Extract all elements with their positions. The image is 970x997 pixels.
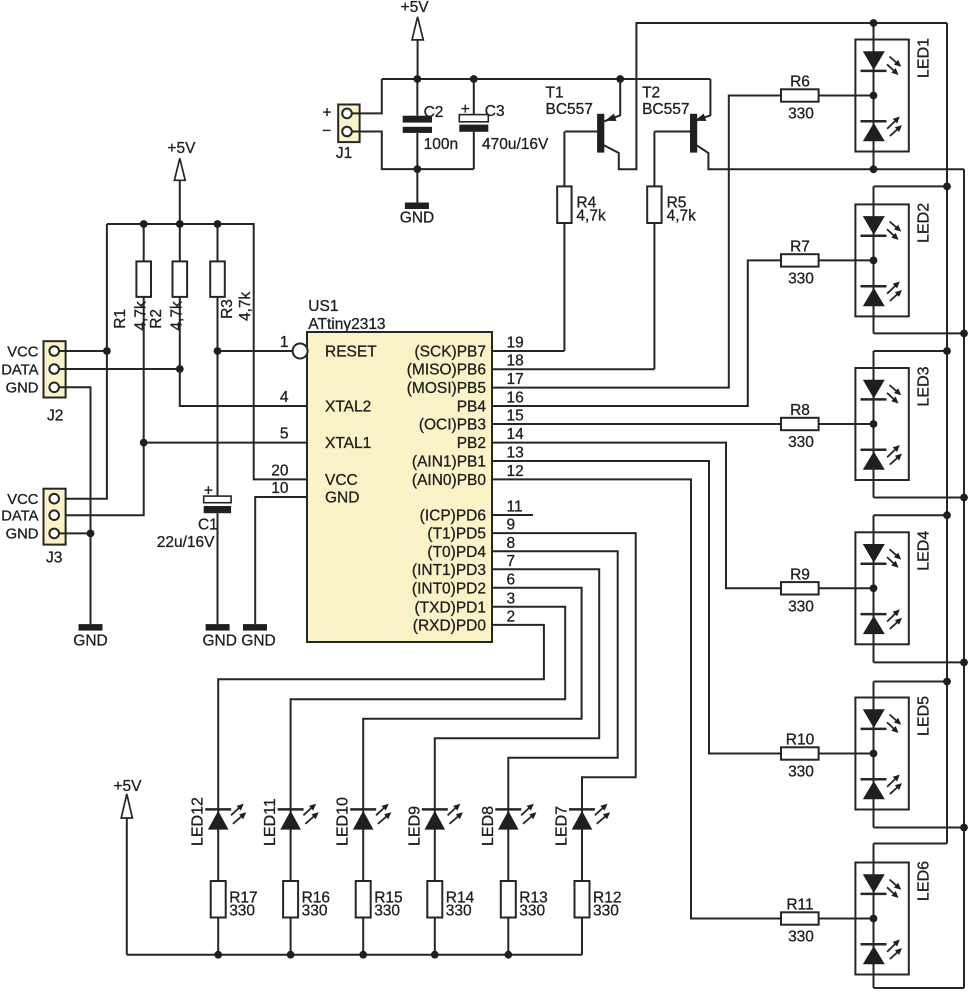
svg-text:17: 17: [507, 371, 524, 388]
svg-text:R10: R10: [786, 732, 815, 749]
junction cathode rail LED3: [960, 494, 968, 502]
svg-text:VCC: VCC: [325, 472, 358, 489]
junction J2 DATA / R2: [176, 365, 184, 373]
resistor R16: [283, 881, 298, 918]
wire J1 minus to ground rail: [352, 132, 474, 170]
LED6 upper diode arrows: [890, 880, 900, 889]
svg-text:R7: R7: [790, 238, 810, 255]
svg-text:4,7k: 4,7k: [237, 291, 254, 321]
svg-text:GND: GND: [6, 381, 39, 397]
svg-text:+5V: +5V: [167, 140, 196, 157]
svg-text:GND: GND: [325, 490, 359, 507]
connector J1: [338, 105, 359, 143]
junction LED6 midpoint: [870, 915, 878, 923]
svg-text:GND: GND: [400, 210, 434, 227]
wire pin 17 to R6: [492, 96, 874, 388]
svg-text:LED1: LED1: [916, 38, 933, 78]
pin wire XTAL1 (pin 5): [144, 442, 307, 444]
svg-text:(RXD)PD0: (RXD)PD0: [413, 617, 487, 634]
wire J3 GND: [59, 532, 91, 534]
transistor T1 collector: [604, 23, 947, 169]
svg-text:330: 330: [229, 903, 255, 920]
svg-text:+5V: +5V: [401, 0, 430, 16]
svg-text:(T1)PD5: (T1)PD5: [427, 526, 486, 543]
svg-text:GND: GND: [73, 632, 107, 649]
svg-text:3: 3: [507, 590, 516, 607]
svg-text:100n: 100n: [424, 136, 458, 153]
wire left +5V bus to IC VCC pin 20: [107, 224, 307, 479]
svg-text:1: 1: [280, 334, 289, 351]
junction LED4 midpoint: [870, 584, 878, 592]
LED LED10 arrows: [376, 805, 387, 815]
LED4 upper diode arrows: [890, 549, 900, 558]
svg-text:DATA: DATA: [1, 509, 38, 525]
LED1 lower diode arrows: [887, 118, 898, 129]
LED6 lower diode arrows: [887, 941, 898, 952]
LED2 lower diode: [861, 285, 887, 288]
LED4 upper diode: [863, 544, 885, 563]
connector J2: [44, 341, 66, 397]
svg-text:T2: T2: [642, 85, 660, 102]
junction anode rail LED5: [943, 678, 951, 686]
svg-text:(T0)PD4: (T0)PD4: [427, 544, 486, 561]
LED4 box and wires: [874, 514, 948, 516]
resistor R15: [356, 881, 371, 918]
LED6 box and wires: [874, 843, 948, 845]
svg-text:4,7k: 4,7k: [576, 208, 606, 225]
svg-text:R1: R1: [112, 309, 129, 329]
wire pin 14 to R9: [492, 443, 874, 589]
junction anode rail LED3: [943, 347, 951, 355]
junction cathode rail LED5: [960, 824, 968, 832]
junction bottom rail / LED12 column: [214, 951, 222, 959]
svg-text:10: 10: [271, 480, 289, 497]
svg-text:5: 5: [280, 426, 289, 443]
resistor R3: [217, 224, 219, 496]
ground GND (under C1): [206, 624, 230, 631]
resistor R8: [781, 418, 819, 430]
svg-text:16: 16: [507, 390, 524, 407]
transistor T2 body: [690, 114, 697, 153]
LED LED10 diode: [350, 808, 376, 811]
junction LED1 midpoint: [870, 92, 878, 100]
svg-text:7: 7: [507, 553, 516, 570]
svg-text:C3: C3: [485, 103, 505, 120]
junction bottom rail / LED8 column: [504, 951, 512, 959]
junction cathode rail LED2: [960, 330, 968, 338]
transistor T1 body: [597, 114, 604, 153]
LED1 lower diode: [861, 120, 887, 123]
svg-text:(MOSI)PB5: (MOSI)PB5: [407, 380, 486, 397]
svg-text:4,7k: 4,7k: [169, 301, 186, 331]
svg-text:PB2: PB2: [457, 435, 486, 452]
svg-text:R2: R2: [148, 309, 165, 329]
svg-text:LED6: LED6: [916, 861, 933, 901]
wire pin 16 to R7: [492, 260, 874, 406]
svg-text:330: 330: [788, 764, 814, 781]
svg-text:LED8: LED8: [480, 806, 497, 846]
LED LED8 arrows: [521, 805, 532, 815]
connector J3: [44, 489, 66, 545]
LED2 lower diode arrows: [887, 283, 898, 294]
capacitor C2: [416, 79, 418, 116]
junction LED1 cathode / T2 collector: [870, 165, 878, 173]
wire J2 VCC: [59, 350, 107, 352]
junction bottom rail / LED11 column: [287, 951, 295, 959]
svg-text:(AIN1)PB1: (AIN1)PB1: [412, 454, 486, 471]
junction +5V bus / T1 emitter: [616, 75, 624, 83]
wire pin 8 to LED8: [492, 551, 618, 954]
wire IC GND pin 10 to ground: [255, 497, 307, 624]
LED1 box and wires: [873, 23, 875, 169]
wire pin 11 stub: [492, 514, 533, 516]
resistor R7: [781, 254, 819, 266]
svg-text:R3: R3: [219, 299, 236, 319]
LED6 upper diode: [863, 874, 885, 893]
junction ground rail / C2: [413, 165, 421, 173]
svg-text:(INT0)PD2: (INT0)PD2: [412, 580, 486, 597]
svg-text:9: 9: [507, 517, 516, 534]
resistor R6: [781, 89, 819, 101]
wire LED cathode rail (x=964): [963, 169, 965, 988]
junction cathode rail LED4: [960, 659, 968, 667]
LED LED12 arrows: [231, 805, 242, 815]
LED3 lower diode: [861, 449, 887, 452]
junction left bus / R1: [140, 220, 148, 228]
svg-text:US1: US1: [308, 298, 338, 315]
svg-text:+: +: [322, 105, 331, 122]
svg-text:XTAL1: XTAL1: [325, 435, 371, 452]
junction LED3 midpoint: [870, 420, 878, 428]
svg-text:14: 14: [507, 426, 525, 443]
svg-text:XTAL2: XTAL2: [325, 399, 371, 416]
svg-text:T1: T1: [546, 85, 564, 102]
wire RESET net (pin 1): [218, 350, 293, 352]
LED LED7 arrows: [595, 805, 606, 815]
svg-text:R8: R8: [790, 402, 810, 419]
svg-text:+5V: +5V: [113, 778, 142, 795]
wire J2 DATA: [59, 368, 180, 370]
svg-text:13: 13: [507, 445, 524, 462]
junction J2 VCC / rail: [103, 347, 111, 355]
svg-text:22u/16V: 22u/16V: [157, 534, 215, 551]
svg-text:(OCI)PB3: (OCI)PB3: [419, 417, 486, 434]
svg-text:C1: C1: [198, 517, 218, 534]
svg-text:(SCK)PB7: (SCK)PB7: [415, 344, 487, 361]
svg-text:11: 11: [507, 499, 523, 516]
wire LED anode rail (x=947): [946, 23, 948, 844]
transistor T1 base wire: [565, 131, 597, 133]
svg-text:LED4: LED4: [916, 531, 933, 571]
LED LED11 diode: [278, 808, 304, 811]
svg-text:R6: R6: [790, 74, 810, 91]
svg-text:330: 330: [374, 903, 400, 920]
LED2 box and wires: [874, 185, 948, 187]
ground GND (under C2): [405, 203, 429, 210]
svg-text:330: 330: [788, 434, 814, 451]
resistor R14: [427, 881, 442, 918]
svg-text:VCC: VCC: [7, 344, 39, 360]
svg-text:LED2: LED2: [916, 203, 933, 243]
svg-text:DATA: DATA: [1, 362, 38, 378]
svg-text:−: −: [322, 123, 331, 140]
junction J3 GND: [87, 530, 95, 538]
svg-text:19: 19: [507, 335, 524, 352]
wire pin 2 to LED12: [218, 625, 544, 955]
resistor R4: [563, 132, 565, 352]
junction bottom rail / LED10 column: [359, 951, 367, 959]
svg-text:330: 330: [519, 903, 545, 920]
svg-text:R9: R9: [790, 566, 810, 583]
resistor R12: [575, 881, 590, 918]
junction bottom rail / LED9 column: [431, 951, 439, 959]
svg-text:LED11: LED11: [262, 798, 279, 846]
LED LED8 diode: [495, 808, 521, 811]
wire pin 9 to LED7: [492, 533, 636, 955]
svg-text:GND: GND: [202, 632, 236, 649]
svg-text:15: 15: [507, 408, 524, 425]
svg-text:12: 12: [507, 463, 524, 480]
svg-text:(ICP)PD6: (ICP)PD6: [420, 508, 486, 525]
wire pin 13 to R10: [492, 461, 874, 754]
svg-text:J2: J2: [47, 408, 63, 425]
wire pin 19 to R4: [492, 350, 564, 352]
resistor R9: [781, 582, 819, 594]
svg-text:330: 330: [302, 903, 328, 920]
transistor T2 base wire: [654, 131, 690, 133]
LED3 upper diode: [863, 380, 885, 399]
wire pin 18 to R5: [492, 368, 654, 370]
svg-text:(INT1)PD3: (INT1)PD3: [412, 562, 486, 579]
junction +5V bus / C2: [413, 75, 421, 83]
wire bottom +5V rail: [127, 954, 582, 956]
svg-text:8: 8: [507, 535, 516, 552]
svg-text:VCC: VCC: [7, 492, 39, 508]
capacitor C1 (electrolytic): [217, 513, 219, 624]
junction +5V bus / C3: [470, 75, 478, 83]
junction LED1 anode / top wire: [870, 19, 878, 27]
capacitor C3 (electrolytic): [473, 79, 475, 115]
svg-text:GND: GND: [241, 632, 275, 649]
svg-text:J1: J1: [336, 145, 352, 162]
LED1 upper diode: [863, 51, 885, 70]
svg-text:LED12: LED12: [190, 797, 207, 846]
svg-text:4: 4: [280, 389, 289, 406]
transistor T1 emitter: [604, 79, 620, 121]
svg-text:ATtiny2313: ATtiny2313: [308, 316, 385, 333]
LED2 upper diode: [863, 216, 885, 235]
resistor R10: [781, 747, 819, 759]
LED LED12 diode: [205, 808, 231, 811]
svg-text:BC557: BC557: [546, 101, 593, 118]
svg-text:LED5: LED5: [916, 696, 933, 736]
wire pin 7 to LED9: [435, 569, 599, 954]
LED5 upper diode: [863, 709, 885, 728]
wire pin 3 to LED11: [291, 607, 566, 955]
LED2 upper diode arrows: [890, 221, 900, 230]
transistor T2 collector: [697, 145, 965, 169]
LED LED7 diode: [569, 808, 595, 811]
resistor R11: [781, 912, 819, 924]
LED3 box and wires: [874, 350, 948, 352]
LED5 box and wires: [874, 681, 948, 683]
ground GND (IC pin 10): [243, 624, 267, 631]
svg-text:GND: GND: [6, 527, 39, 543]
junction left bus / R2 +5V: [176, 220, 184, 228]
junction XTAL1 / R1: [140, 439, 148, 447]
wire +5V bus (top): [382, 78, 711, 80]
junction LED5 midpoint: [870, 750, 878, 758]
svg-text:LED3: LED3: [916, 366, 933, 406]
svg-text:4,7k: 4,7k: [133, 301, 150, 331]
svg-text:330: 330: [788, 106, 814, 123]
wire pin 15 to R8: [492, 423, 874, 425]
svg-text:330: 330: [593, 903, 619, 920]
svg-text:330: 330: [446, 903, 472, 920]
resistor R2: [180, 224, 307, 406]
junction left bus / R3: [214, 220, 222, 228]
LED3 lower diode arrows: [887, 446, 898, 457]
LED1 upper diode arrows: [890, 57, 900, 66]
svg-text:330: 330: [788, 598, 814, 615]
svg-text:(MISO)PB6: (MISO)PB6: [407, 362, 486, 379]
svg-text:(TXD)PD1: (TXD)PD1: [415, 599, 486, 616]
junction LED2 midpoint: [870, 257, 878, 265]
wire J1 plus to bus: [352, 79, 382, 113]
svg-text:4,7k: 4,7k: [667, 208, 697, 225]
LED4 lower diode arrows: [887, 611, 898, 622]
wire J2 GND down: [59, 387, 91, 624]
svg-text:LED7: LED7: [554, 806, 571, 846]
svg-text:R11: R11: [786, 897, 813, 914]
svg-text:J3: J3: [46, 550, 62, 567]
svg-text:20: 20: [271, 462, 289, 479]
transistor T2 emitter: [694, 79, 710, 121]
LED5 lower diode arrows: [887, 776, 898, 787]
svg-text:330: 330: [788, 270, 814, 287]
resistor R5: [653, 132, 655, 370]
svg-text:470u/16V: 470u/16V: [482, 136, 549, 153]
resistor R1: [59, 224, 144, 515]
junction anode rail LED4: [943, 511, 951, 519]
LED5 upper diode arrows: [890, 715, 900, 724]
svg-text:330: 330: [788, 929, 814, 946]
svg-text:LED10: LED10: [335, 797, 352, 846]
junction RESET / R3: [214, 347, 222, 355]
LED LED9 arrows: [448, 805, 459, 815]
svg-text:2: 2: [507, 608, 516, 625]
svg-text:18: 18: [507, 353, 524, 370]
svg-text:PB4: PB4: [457, 399, 487, 416]
svg-text:+: +: [204, 483, 213, 500]
svg-text:C2: C2: [424, 104, 444, 121]
svg-text:6: 6: [507, 571, 516, 588]
LED4 lower diode: [861, 613, 887, 616]
svg-text:+: +: [461, 101, 470, 118]
resistor R17: [211, 881, 226, 918]
wire pin 6 to LED10: [363, 588, 581, 955]
pin 1 RESET bubble: [293, 344, 308, 359]
resistor R13: [501, 881, 516, 918]
wire VCC rail to J3 VCC: [59, 224, 107, 499]
LED LED9 diode: [422, 808, 448, 811]
junction anode rail LED2: [943, 183, 951, 191]
LED5 lower diode: [861, 778, 887, 781]
svg-text:LED9: LED9: [406, 806, 423, 846]
LED6 lower diode: [861, 943, 887, 946]
ground GND (left, below J3): [79, 624, 103, 631]
LED3 upper diode arrows: [890, 385, 900, 394]
wire pin 12 to R11: [492, 479, 874, 918]
svg-text:BC557: BC557: [642, 101, 689, 118]
LED LED11 arrows: [303, 805, 314, 815]
svg-text:(AIN0)PB0: (AIN0)PB0: [412, 472, 486, 489]
IC US1 ATtiny2313 body: [307, 332, 492, 642]
svg-text:RESET: RESET: [325, 344, 377, 361]
